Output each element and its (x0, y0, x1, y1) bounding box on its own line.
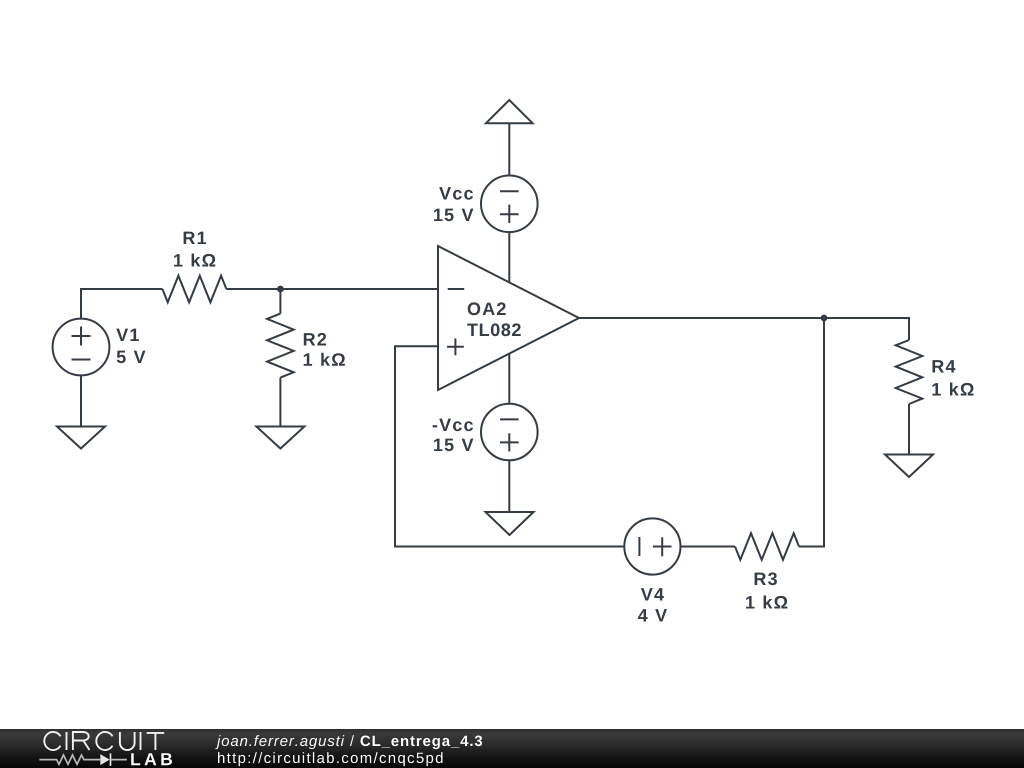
label -Vcc value (434, 439, 473, 452)
label op-amp part TL082 (467, 323, 521, 336)
wire: op-amp non-inverting input loop down (395, 346, 624, 546)
label R4 value (932, 383, 973, 396)
wire: VCC arrow to Vcc source (508, 123, 510, 175)
label R4 designator (933, 360, 956, 372)
wire: R3 to feedback junction (799, 318, 824, 547)
CircuitLab logo resistor-diode glyph (39, 753, 127, 766)
label R1 value (174, 254, 215, 267)
voltage source Vcc 15V (481, 176, 538, 233)
voltage source V1 (53, 319, 110, 376)
wire: R1 right to op-amp inverting input (226, 288, 438, 290)
resistor R4 (896, 340, 923, 404)
label V4 value (638, 609, 667, 621)
label R1 designator (184, 232, 207, 244)
ground below V1 (57, 427, 105, 449)
ground below R2 (256, 427, 304, 449)
footer url line (218, 752, 443, 766)
power node VCC arrow (486, 100, 533, 123)
op-amp OA2 TL082 (438, 246, 579, 390)
ground below -Vcc (486, 512, 534, 535)
wire: op-amp bottom power pin to -Vcc source (508, 354, 510, 404)
wire: R4 bottom to ground (908, 404, 910, 455)
wire: -Vcc source to ground (508, 460, 510, 512)
label -Vcc designator (433, 419, 473, 432)
label V1 value (117, 351, 146, 364)
footer author/title line (215, 735, 482, 749)
label R2 value (304, 353, 345, 366)
CircuitLab logo wordmark CIRCUIT (44, 732, 164, 750)
voltage source V4 (624, 518, 680, 574)
CircuitLab logo wordmark LAB (131, 753, 172, 765)
label op-amp designator OA2 (468, 302, 506, 315)
wire: op-amp output to R4 corner (579, 318, 909, 340)
resistor R3 (735, 533, 799, 560)
resistor R1 (162, 276, 226, 303)
ground below R4 (885, 455, 933, 478)
wire: V1 top to R1 left (81, 289, 162, 319)
node junction at feedback tap (821, 315, 828, 322)
label Vcc value (434, 209, 473, 222)
wire: junction down to R2 (279, 289, 281, 314)
label V1 designator (116, 329, 139, 341)
wire: V4 to R3 (680, 546, 735, 548)
voltage source -Vcc 15V (481, 404, 538, 461)
resistor R2 (267, 314, 294, 378)
wire: R2 bottom to ground (279, 378, 281, 427)
label R3 value (746, 596, 787, 609)
label R2 designator (304, 333, 326, 346)
wire: V1 bottom to ground (80, 375, 82, 426)
label V4 designator (641, 588, 664, 600)
label Vcc designator (439, 187, 473, 200)
label R3 designator (755, 572, 777, 585)
wire: Vcc source to op-amp power pin (508, 232, 510, 282)
node junction at R2 top (277, 286, 284, 293)
